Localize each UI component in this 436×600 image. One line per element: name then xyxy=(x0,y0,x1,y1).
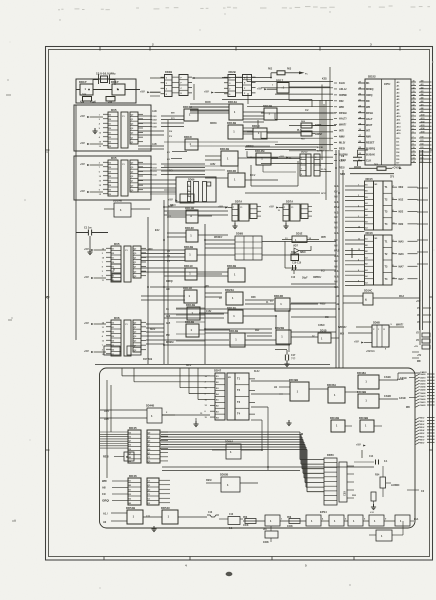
svg-text:BUSAK: BUSAK xyxy=(366,154,375,157)
svg-text:DD48A: DD48A xyxy=(357,371,366,375)
svg-text:A0/: A0/ xyxy=(334,216,338,219)
svg-text:12: 12 xyxy=(413,154,415,156)
svg-text:5: 5 xyxy=(358,260,359,262)
svg-text:3: 3 xyxy=(413,122,414,124)
svg-text:ZF5: ZF5 xyxy=(390,177,395,179)
svg-text:D13/: D13/ xyxy=(153,171,158,173)
svg-text:2: 2 xyxy=(413,118,414,120)
svg-text:MA7: MA7 xyxy=(399,278,405,281)
svg-text:IOR/: IOR/ xyxy=(251,297,256,299)
svg-text:MA3: MA3 xyxy=(399,295,405,298)
svg-text:WR: WR xyxy=(366,106,370,109)
svg-text:38: 38 xyxy=(413,108,415,110)
svg-text:R54: R54 xyxy=(375,474,380,477)
svg-text:WR/: WR/ xyxy=(148,249,153,251)
svg-text:D3/: D3/ xyxy=(421,147,425,149)
svg-text:DD1D: DD1D xyxy=(184,135,192,139)
svg-text:IOPD1/: IOPD1/ xyxy=(313,276,322,279)
svg-text:A0B/: A0B/ xyxy=(210,163,216,166)
svg-text:7: 7 xyxy=(301,168,302,170)
svg-text:IORW/: IORW/ xyxy=(339,93,347,97)
svg-text:C14: C14 xyxy=(369,455,374,458)
svg-text:DD11C: DD11C xyxy=(184,264,193,268)
svg-text:X1/: X1/ xyxy=(305,110,309,112)
svg-text:30: 30 xyxy=(413,81,415,83)
svg-text:10: 10 xyxy=(99,176,101,178)
svg-text:DD12B: DD12B xyxy=(227,264,236,268)
svg-text:DD22B: DD22B xyxy=(275,326,284,330)
svg-text:A6/: A6/ xyxy=(334,195,338,198)
svg-text:9: 9 xyxy=(358,280,359,282)
svg-text:10: 10 xyxy=(413,147,415,149)
svg-text:MD5/: MD5/ xyxy=(420,433,425,435)
svg-text:3: 3 xyxy=(358,195,359,197)
svg-text:CAB1/: CAB1/ xyxy=(420,401,426,404)
svg-text:13: 13 xyxy=(413,158,415,160)
svg-text:9: 9 xyxy=(413,144,414,146)
svg-text:5: 5 xyxy=(188,185,189,187)
svg-text:A8/: A8/ xyxy=(334,265,338,268)
svg-text:INT/: INT/ xyxy=(339,129,344,133)
svg-text:A14/: A14/ xyxy=(421,127,426,130)
svg-text:R02: R02 xyxy=(268,69,273,71)
svg-text:DD1D: DD1D xyxy=(252,124,260,128)
svg-text:NBC/: NBC/ xyxy=(170,205,176,207)
svg-text:A8/: A8/ xyxy=(421,107,425,110)
svg-text:HALT/: HALT/ xyxy=(339,117,347,121)
svg-text:R17 399: R17 399 xyxy=(143,358,153,361)
svg-text:100K: 100K xyxy=(263,541,269,544)
svg-text:100K: 100K xyxy=(287,525,293,528)
svg-text:VD7: VD7 xyxy=(293,245,298,248)
svg-text:D14/: D14/ xyxy=(153,174,158,177)
svg-text:DD9B: DD9B xyxy=(373,322,380,325)
svg-text:M1/: M1/ xyxy=(340,333,344,336)
svg-text:DD1P: DD1P xyxy=(111,80,119,84)
svg-text:DD11B: DD11B xyxy=(185,206,194,210)
svg-text:M02: M02 xyxy=(399,186,404,189)
svg-text:A10/: A10/ xyxy=(334,201,339,204)
svg-text:+5V: +5V xyxy=(84,275,89,279)
svg-text:KC1/: KC1/ xyxy=(250,175,256,177)
svg-text:C1B/: C1B/ xyxy=(206,311,212,313)
svg-text:11: 11 xyxy=(102,327,104,329)
svg-text:15: 15 xyxy=(102,354,104,356)
svg-text:CAB1/: CAB1/ xyxy=(420,371,427,374)
svg-text:CPU: CPU xyxy=(384,82,390,86)
svg-text:RD/: RD/ xyxy=(205,286,209,288)
svg-text:10.0: 10.0 xyxy=(341,159,346,162)
svg-text:DD9B: DD9B xyxy=(236,232,243,236)
svg-text:MRES/: MRES/ xyxy=(166,341,174,344)
svg-text:DD54B: DD54B xyxy=(126,506,135,510)
svg-text:D11/: D11/ xyxy=(153,164,158,166)
svg-text:A6/: A6/ xyxy=(334,260,338,263)
svg-text:6: 6 xyxy=(102,275,103,277)
svg-text:CLK: CLK xyxy=(366,159,371,162)
svg-text:DD2B: DD2B xyxy=(165,70,172,74)
svg-text:DD16: DD16 xyxy=(366,231,374,235)
svg-text:+5V: +5V xyxy=(84,349,89,353)
svg-text:A0/: A0/ xyxy=(334,239,338,242)
svg-text:+5V: +5V xyxy=(80,141,85,145)
svg-text:WBDIV/: WBDIV/ xyxy=(214,237,223,239)
svg-text:11: 11 xyxy=(393,277,395,279)
svg-text:RFSH/: RFSH/ xyxy=(339,111,347,115)
svg-text:10: 10 xyxy=(358,226,360,228)
svg-text:A13/: A13/ xyxy=(334,232,339,235)
svg-text:INT: INT xyxy=(366,130,371,133)
svg-text:RESET: RESET xyxy=(366,142,375,145)
svg-text:MD7/: MD7/ xyxy=(420,439,425,441)
svg-text:RES/: RES/ xyxy=(206,479,212,482)
svg-text:BK/: BK/ xyxy=(171,113,175,115)
svg-text:MD0/: MD0/ xyxy=(420,418,425,420)
svg-text:DD7A: DD7A xyxy=(235,200,242,204)
svg-text:M22: M22 xyxy=(399,211,404,214)
svg-text:2: 2 xyxy=(358,206,359,208)
svg-text:37: 37 xyxy=(413,105,415,107)
svg-text:MD6/: MD6/ xyxy=(420,436,425,438)
svg-text:C1 1m: C1 1m xyxy=(84,227,92,230)
svg-text:+5V: +5V xyxy=(279,155,284,159)
svg-text:DD54C: DD54C xyxy=(161,506,170,510)
svg-text:CAB6/: CAB6/ xyxy=(420,392,426,395)
svg-text:C1/: C1/ xyxy=(102,493,106,496)
svg-text:D06: D06 xyxy=(114,316,120,320)
svg-text:2: 2 xyxy=(393,240,394,242)
svg-text:A10/: A10/ xyxy=(421,114,426,117)
svg-text:KLK/: KLK/ xyxy=(254,371,260,373)
svg-text:C1: C1 xyxy=(240,207,242,209)
svg-text:7: 7 xyxy=(102,262,103,264)
svg-text:+5V: +5V xyxy=(140,89,145,93)
svg-text:NMI: NMI xyxy=(366,136,371,139)
svg-text:DD12B: DD12B xyxy=(184,245,193,249)
svg-text:MREQ: MREQ xyxy=(366,88,374,91)
svg-text:BD0/: BD0/ xyxy=(150,329,156,331)
svg-text:D0/: D0/ xyxy=(421,137,425,139)
svg-text:2: 2 xyxy=(393,186,394,188)
svg-text:DD11D: DD11D xyxy=(183,286,192,290)
svg-text:MA6: MA6 xyxy=(399,253,405,256)
svg-text:DD12B: DD12B xyxy=(186,303,195,307)
svg-text:&: & xyxy=(365,298,367,302)
svg-text:+1u0: +1u0 xyxy=(90,101,96,104)
svg-text:13: 13 xyxy=(102,340,104,342)
svg-text:MD3/: MD3/ xyxy=(420,427,425,429)
svg-text:DD12D: DD12D xyxy=(227,169,236,173)
svg-text:+5V: +5V xyxy=(218,205,223,209)
svg-text:3: 3 xyxy=(102,271,103,273)
svg-text:DD44B: DD44B xyxy=(330,416,339,420)
svg-text:D05: D05 xyxy=(111,108,117,112)
svg-text:DD10B: DD10B xyxy=(263,104,272,108)
svg-text:CAB4/: CAB4/ xyxy=(420,386,426,389)
svg-text:BD1/: BD1/ xyxy=(186,365,192,367)
svg-text:2: 2 xyxy=(102,349,103,351)
svg-text:D2/: D2/ xyxy=(421,144,425,146)
svg-text:12: 12 xyxy=(99,185,101,187)
svg-text:DD1E: DD1E xyxy=(296,233,303,236)
svg-text:+5V: +5V xyxy=(168,198,173,202)
svg-text:MD1/: MD1/ xyxy=(420,421,425,423)
svg-text:WAIT: WAIT xyxy=(366,124,373,127)
svg-text:WAIT/: WAIT/ xyxy=(339,123,346,127)
svg-text:PLS/: PLS/ xyxy=(297,130,302,132)
svg-text:DDB2/: DDB2/ xyxy=(315,133,323,136)
svg-text:+5V: +5V xyxy=(417,355,422,357)
svg-text:+5V: +5V xyxy=(204,90,209,94)
svg-text:+5V: +5V xyxy=(80,189,85,193)
svg-text:5: 5 xyxy=(301,157,302,159)
svg-text:12: 12 xyxy=(99,132,101,134)
svg-text:DD12B: DD12B xyxy=(229,329,238,333)
svg-text:M1: M1 xyxy=(366,82,370,85)
svg-text:A14/: A14/ xyxy=(152,110,157,113)
svg-text:+5V: +5V xyxy=(356,443,361,447)
svg-text:A7/: A7/ xyxy=(421,103,425,106)
svg-text:+5V: +5V xyxy=(80,162,85,166)
svg-text:39: 39 xyxy=(413,111,415,113)
svg-text:5: 5 xyxy=(413,128,414,130)
svg-text:A14/: A14/ xyxy=(334,255,339,258)
svg-text:6: 6 xyxy=(99,171,100,173)
svg-text:+5V: +5V xyxy=(257,86,262,90)
svg-text:RFSH: RFSH xyxy=(366,112,373,115)
svg-text:A2/: A2/ xyxy=(334,227,338,230)
svg-text:A1/: A1/ xyxy=(421,83,425,86)
svg-text:CAB3/: CAB3/ xyxy=(420,383,426,386)
svg-text:CAB0/: CAB0/ xyxy=(420,398,426,401)
svg-text:430: 430 xyxy=(80,101,85,104)
svg-text:A16: A16 xyxy=(166,315,171,318)
svg-text:CAB1/: CAB1/ xyxy=(420,376,426,379)
svg-text:+5V: +5V xyxy=(84,247,89,251)
svg-text:A15/: A15/ xyxy=(152,143,157,146)
svg-text:NMI/: NMI/ xyxy=(339,135,345,139)
svg-text:DD55B: DD55B xyxy=(220,474,228,477)
svg-text:WR/: WR/ xyxy=(339,105,344,109)
svg-text:A0/: A0/ xyxy=(334,281,338,284)
svg-text:5: 5 xyxy=(393,252,394,254)
svg-text:33: 33 xyxy=(413,91,415,93)
svg-text:IORQ/: IORQ/ xyxy=(102,500,109,503)
svg-text:WAIT/: WAIT/ xyxy=(396,323,403,327)
svg-text:A15: A15 xyxy=(104,418,109,421)
svg-text:3: 3 xyxy=(358,216,359,218)
svg-text:DD13A: DD13A xyxy=(228,100,237,104)
svg-text:R05: R05 xyxy=(82,94,87,97)
svg-text:DD22A: DD22A xyxy=(225,288,234,292)
svg-text:C53: C53 xyxy=(343,491,347,496)
svg-text:MLS/: MLS/ xyxy=(339,141,345,145)
svg-text:MREQ/: MREQ/ xyxy=(246,146,254,148)
svg-text:DD22: DD22 xyxy=(368,75,376,79)
svg-text:7: 7 xyxy=(358,185,359,187)
svg-text:K21/: K21/ xyxy=(322,78,327,81)
svg-text:32: 32 xyxy=(413,88,415,90)
svg-text:7: 7 xyxy=(413,137,414,139)
svg-text:CASB/: CASB/ xyxy=(397,378,404,381)
svg-text:AUDIO: AUDIO xyxy=(391,483,399,487)
svg-text:1: 1 xyxy=(413,115,414,117)
svg-text:DD45: DD45 xyxy=(129,426,137,430)
svg-text:8: 8 xyxy=(413,140,414,142)
svg-text:???: ??? xyxy=(291,358,296,361)
svg-text:DD46: DD46 xyxy=(129,474,137,478)
svg-text:+5V: +5V xyxy=(269,205,274,209)
svg-text:A10/: A10/ xyxy=(334,276,339,279)
svg-text:HALT: HALT xyxy=(366,118,373,121)
svg-text:DD49B: DD49B xyxy=(289,378,298,382)
svg-text:13: 13 xyxy=(99,146,101,148)
svg-text:DD45A: DD45A xyxy=(327,383,336,387)
svg-text:F0/: F0/ xyxy=(169,131,173,133)
svg-text:DD49B: DD49B xyxy=(359,416,368,420)
svg-text:DD1AB: DD1AB xyxy=(113,199,122,203)
svg-text:A15/: A15/ xyxy=(421,131,426,134)
svg-text:30pF: 30pF xyxy=(302,277,308,280)
svg-text:7: 7 xyxy=(102,345,103,347)
svg-text:1: 1 xyxy=(99,114,100,116)
svg-text:+5V: +5V xyxy=(354,340,359,344)
svg-text:DD12D: DD12D xyxy=(274,294,283,298)
svg-text:+5V: +5V xyxy=(414,346,418,348)
svg-text:DD12C: DD12C xyxy=(185,226,194,230)
svg-text:C10-C10: C10-C10 xyxy=(292,263,302,265)
svg-text:2: 2 xyxy=(102,253,103,255)
svg-text:CAB2/: CAB2/ xyxy=(420,379,426,382)
svg-text:A13/: A13/ xyxy=(421,124,426,127)
svg-text:A12/: A12/ xyxy=(334,270,339,273)
svg-text:EC/: EC/ xyxy=(155,228,160,232)
svg-text:11: 11 xyxy=(358,239,360,241)
svg-text:B: B xyxy=(126,456,128,459)
svg-text:DD12B: DD12B xyxy=(220,147,229,151)
svg-text:C13: C13 xyxy=(229,514,234,516)
svg-text:MA7: MA7 xyxy=(399,265,405,268)
svg-text:MA2/: MA2/ xyxy=(334,249,340,252)
svg-text:A6/: A6/ xyxy=(421,100,425,103)
svg-text:IORQ: IORQ xyxy=(366,94,372,97)
svg-text:5: 5 xyxy=(393,198,394,200)
svg-text:WREF/: WREF/ xyxy=(338,325,347,329)
svg-text:CAB2/: CAB2/ xyxy=(420,404,426,407)
svg-text:R04: R04 xyxy=(374,164,379,167)
svg-text:C13: C13 xyxy=(208,512,213,514)
svg-text:A15: A15 xyxy=(166,322,171,325)
svg-text:D12/: D12/ xyxy=(153,168,158,170)
svg-text:CAB5/: CAB5/ xyxy=(420,389,426,392)
svg-text:A4/: A4/ xyxy=(421,93,425,96)
svg-text:9: 9 xyxy=(99,128,100,130)
svg-text:R: R xyxy=(113,269,115,272)
svg-text:6: 6 xyxy=(413,132,414,134)
svg-text:IORQ/: IORQ/ xyxy=(166,280,173,283)
svg-text:8: 8 xyxy=(188,195,189,197)
svg-text:D04/: D04/ xyxy=(153,126,158,129)
svg-text:D05: D05 xyxy=(114,242,120,246)
svg-text:EPS4: EPS4 xyxy=(320,510,327,514)
svg-text:MD4/: MD4/ xyxy=(420,429,425,432)
svg-text:31: 31 xyxy=(413,84,415,86)
svg-text:DD2B: DD2B xyxy=(229,70,236,74)
svg-text:35: 35 xyxy=(413,98,415,100)
svg-text:DD13B: DD13B xyxy=(227,121,236,125)
svg-text:+5V: +5V xyxy=(80,114,85,118)
svg-text:A12/: A12/ xyxy=(421,120,426,123)
svg-text:13.0-16.0 MHz: 13.0-16.0 MHz xyxy=(96,72,116,76)
svg-text:DD14C: DD14C xyxy=(364,290,372,293)
svg-text:MA5: MA5 xyxy=(399,240,405,243)
svg-text:A3/: A3/ xyxy=(421,90,425,93)
svg-text:DD49B: DD49B xyxy=(357,390,366,394)
svg-text:A0/: A0/ xyxy=(421,80,425,83)
svg-text:DCB/: DCB/ xyxy=(205,102,211,104)
svg-text:C1: C1 xyxy=(291,207,293,209)
svg-text:DD1P: DD1P xyxy=(79,80,87,84)
svg-text:CAB7/: CAB7/ xyxy=(420,395,426,398)
svg-text:11: 11 xyxy=(413,151,415,153)
svg-text:13: 13 xyxy=(99,180,101,182)
svg-text:100K: 100K xyxy=(243,525,249,527)
svg-text:DDB1/: DDB1/ xyxy=(210,123,217,125)
svg-text:9: 9 xyxy=(99,189,100,191)
svg-text:DD06: DD06 xyxy=(188,179,195,182)
svg-text:7: 7 xyxy=(99,167,100,169)
svg-text:CAS1/: CAS1/ xyxy=(384,376,391,379)
svg-text:X5/: X5/ xyxy=(334,192,338,194)
svg-text:8: 8 xyxy=(393,210,394,212)
svg-text:MD: MD xyxy=(417,361,421,363)
svg-text:MR/: MR/ xyxy=(255,330,260,332)
svg-text:RD: RD xyxy=(366,100,370,103)
svg-text:3: 3 xyxy=(188,190,189,192)
svg-text:2: 2 xyxy=(99,119,100,121)
svg-text:11: 11 xyxy=(102,280,104,282)
svg-text:A14: A14 xyxy=(104,410,109,413)
svg-text:M12: M12 xyxy=(399,198,404,201)
svg-text:A0LA/: A0LA/ xyxy=(339,87,347,91)
svg-text:A11/: A11/ xyxy=(421,117,426,120)
svg-text:DD44B: DD44B xyxy=(146,405,154,408)
svg-text:M32: M32 xyxy=(399,223,404,226)
svg-text:13: 13 xyxy=(358,249,360,251)
svg-text:RES/: RES/ xyxy=(103,456,109,459)
svg-text:MD2/: MD2/ xyxy=(420,424,425,426)
svg-text:A13/: A13/ xyxy=(334,211,339,214)
svg-text:DD7A: DD7A xyxy=(286,200,293,204)
svg-text:DD15: DD15 xyxy=(366,177,374,181)
svg-text:A0/: A0/ xyxy=(102,487,106,490)
svg-text:R03: R03 xyxy=(287,69,292,71)
svg-text:A1./: A1./ xyxy=(103,513,108,516)
svg-text:2: 2 xyxy=(99,162,100,164)
svg-text:8: 8 xyxy=(393,265,394,267)
svg-text:C10: C10 xyxy=(291,277,296,279)
svg-text:RD/: RD/ xyxy=(339,99,344,103)
svg-text:A12/: A12/ xyxy=(334,185,339,188)
svg-text:A2/: A2/ xyxy=(421,86,425,89)
svg-text:WR/: WR/ xyxy=(102,480,107,483)
svg-text:DD47: DD47 xyxy=(214,369,222,373)
svg-text:8: 8 xyxy=(358,270,359,272)
svg-text:WD: WD xyxy=(406,407,410,409)
svg-text:D1/: D1/ xyxy=(421,140,425,142)
svg-text:DD50: DD50 xyxy=(327,453,334,457)
svg-text:DD12G: DD12G xyxy=(227,306,236,310)
